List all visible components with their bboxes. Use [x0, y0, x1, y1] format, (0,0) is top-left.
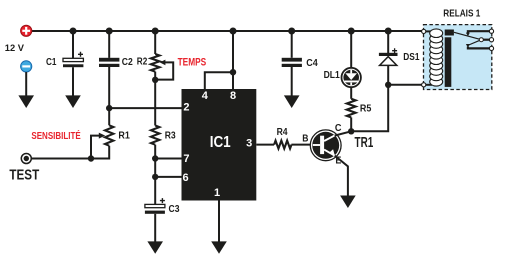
relay RELAIS 1 box — [424, 25, 492, 90]
wire R4 to TR1 base — [291, 144, 310, 146]
relay terminal common — [489, 38, 493, 42]
wire R1 bottom to TEST line — [32, 146, 110, 159]
node junction DL1/rail — [348, 28, 355, 35]
svg-text:C2: C2 — [122, 57, 133, 68]
node junction R2/rail — [152, 28, 159, 35]
node junction DS1/relay — [385, 82, 391, 88]
wire rail to R2 — [154, 31, 156, 54]
diode DS1 — [379, 48, 398, 65]
capacitor C2 — [99, 58, 119, 67]
ground under C1 — [65, 95, 81, 108]
wire TR1 emitter — [335, 156, 348, 198]
svg-text:7: 7 — [183, 153, 189, 165]
wire negative terminal to ground — [25, 72, 27, 98]
relay armature — [445, 30, 454, 36]
wire rail to C2 — [108, 31, 110, 58]
svg-text:12 V: 12 V — [5, 43, 25, 54]
arrow R2 wiper head — [160, 60, 166, 66]
svg-text:4: 4 — [202, 90, 209, 102]
terminal TEST — [21, 154, 31, 164]
svg-text:TEMPS: TEMPS — [178, 56, 207, 68]
node junction wiper/TEST — [88, 155, 94, 161]
svg-text:C3: C3 — [169, 204, 180, 215]
arrow R1 wiper head — [99, 133, 105, 139]
potentiometer R2 — [151, 54, 160, 72]
wire rail to DS1 — [387, 31, 389, 53]
wire collector node to DS1 branch — [351, 85, 388, 132]
svg-text:6: 6 — [183, 172, 189, 184]
resistor R3 — [151, 126, 159, 145]
wire entry to coil top — [426, 30, 432, 32]
svg-text:DL1: DL1 — [324, 70, 341, 81]
node junction C1/rail — [70, 28, 77, 35]
wire top +12V rail — [31, 30, 422, 32]
svg-text:R5: R5 — [360, 104, 372, 115]
svg-text:3: 3 — [246, 137, 252, 149]
capacitor C3 — [145, 198, 165, 214]
wire R1 wiper — [91, 136, 100, 159]
wire rail to DL1 — [350, 31, 352, 69]
wire collector node to TR1 — [335, 131, 352, 135]
wire pin6 node to C3 — [154, 177, 156, 205]
svg-text:R1: R1 — [118, 130, 130, 141]
node junction R2/wiper — [152, 77, 158, 83]
relay pivot — [479, 38, 483, 42]
wire DS1 to bottom node — [387, 65, 389, 84]
node junction pin8/rail — [230, 28, 237, 35]
wire pin 8 to rail — [232, 31, 234, 89]
svg-text:B: B — [302, 134, 308, 145]
resistor R4 — [274, 141, 291, 149]
node junction C2/rail — [106, 28, 113, 35]
svg-text:8: 8 — [230, 90, 236, 102]
wire R3 to pin7 node — [154, 145, 156, 159]
IC op-amp/timer U IC1 — [182, 89, 257, 201]
svg-text:2: 2 — [183, 102, 189, 114]
capacitor C4 — [282, 58, 302, 67]
relay coil — [430, 29, 443, 86]
relay contact NC point — [466, 33, 470, 37]
relay switch arm lower segment — [469, 40, 482, 45]
node junction collector — [348, 128, 354, 134]
node junction pin6 — [152, 174, 158, 180]
battery negative terminal — [21, 61, 32, 72]
svg-text:R3: R3 — [165, 131, 176, 142]
ground under TR1 emitter — [340, 196, 356, 209]
wire C1 to ground — [72, 67, 74, 97]
wire C4 to ground — [291, 67, 293, 98]
transistor TR1 — [310, 130, 341, 161]
wire pin7 node to pin6 node — [154, 159, 156, 177]
wire R2 bottom — [154, 72, 156, 126]
svg-text:C1: C1 — [46, 57, 57, 68]
node junction pin4/pin8 — [230, 69, 236, 75]
svg-text:IC1: IC1 — [210, 134, 231, 151]
wire C2 to pin2 node — [108, 67, 110, 108]
ground under negative terminal — [18, 95, 34, 108]
svg-text:RELAIS 1: RELAIS 1 — [443, 9, 480, 20]
wire pin 6 — [155, 176, 181, 178]
relay contact NC — [468, 31, 491, 33]
wire rail to C1 — [72, 31, 74, 58]
battery positive terminal — [21, 25, 32, 36]
wire pin 2 — [109, 107, 181, 109]
capacitor C1 — [63, 52, 83, 67]
svg-text:C4: C4 — [306, 58, 318, 69]
relay entry terminal top — [422, 29, 426, 33]
relay contact NO — [468, 47, 491, 49]
svg-text:C: C — [335, 123, 342, 134]
node junction C4/rail — [288, 28, 295, 35]
wire DL1 to R5 — [350, 87, 352, 99]
ground under C3 — [147, 241, 163, 253]
svg-text:TR1: TR1 — [355, 135, 374, 151]
relay switch arm — [454, 32, 481, 39]
relay terminal NC — [489, 29, 493, 33]
relay entry terminal bottom — [422, 83, 426, 87]
wire pin 7 — [155, 158, 181, 160]
svg-text:E: E — [335, 156, 341, 167]
wire node to R1 — [108, 108, 110, 125]
svg-text:1: 1 — [214, 187, 220, 199]
LED DL1 — [342, 68, 361, 87]
relay core bar — [445, 37, 452, 87]
svg-text:R4: R4 — [277, 127, 288, 138]
potentiometer R1 — [105, 125, 113, 145]
relay terminal NO — [489, 46, 493, 50]
svg-text:SENSIBILITÉ: SENSIBILITÉ — [31, 129, 81, 142]
wire R2 wiper to bottom — [155, 62, 173, 79]
node junction DS1/rail — [385, 28, 392, 35]
wire pin 1 to ground — [218, 201, 220, 244]
wire pin 4 to pin 8 jumper — [205, 72, 233, 89]
ground under C4 — [284, 95, 300, 108]
wire rail to C4 — [291, 31, 293, 58]
relay common bar — [481, 39, 491, 41]
wire DS1 node to relay coil bottom — [388, 84, 422, 86]
wire pin 3 to R4 — [256, 144, 274, 146]
node junction C2/R1/pin2 — [106, 105, 112, 111]
svg-text:TEST: TEST — [9, 166, 39, 183]
resistor R5 — [347, 99, 356, 118]
ground under pin 1 — [211, 241, 227, 253]
svg-text:DS1: DS1 — [403, 52, 420, 63]
svg-text:R2: R2 — [137, 57, 148, 68]
wire R5 to collector node — [350, 117, 352, 131]
wire C3 to ground — [154, 214, 156, 244]
wire entry to coil bottom — [426, 84, 432, 86]
relay contact point moving — [466, 44, 470, 48]
node junction R3/pin7 — [152, 155, 158, 161]
